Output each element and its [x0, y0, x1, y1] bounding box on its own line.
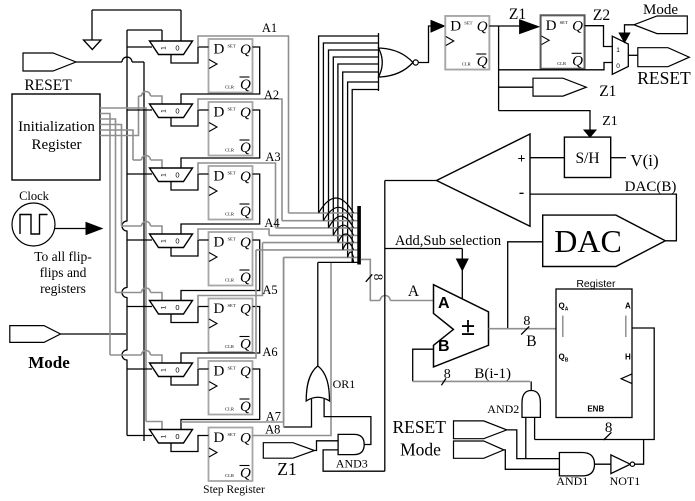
svg-text:A5: A5 — [262, 283, 277, 297]
svg-text:V(i): V(i) — [630, 151, 658, 170]
svg-text:Z1: Z1 — [602, 114, 618, 129]
svg-text:Q: Q — [559, 353, 565, 362]
svg-text:1: 1 — [616, 47, 620, 54]
svg-text:Add,Sub selection: Add,Sub selection — [395, 233, 502, 249]
svg-text:DAC: DAC — [554, 223, 622, 259]
svg-text:A: A — [438, 295, 450, 312]
svg-text:B: B — [526, 333, 536, 350]
svg-text:Z2: Z2 — [593, 7, 610, 24]
svg-text:flips and: flips and — [40, 265, 87, 280]
svg-text:RESET: RESET — [637, 68, 691, 88]
svg-text:NOT1: NOT1 — [610, 474, 641, 488]
svg-text:RESET: RESET — [24, 77, 72, 94]
svg-text:AND3: AND3 — [336, 457, 368, 471]
svg-text:RESET: RESET — [392, 417, 446, 437]
svg-text:Mode: Mode — [400, 440, 441, 460]
svg-text:registers: registers — [40, 281, 86, 296]
svg-text:-: - — [519, 184, 524, 201]
svg-text:Z1: Z1 — [599, 83, 616, 100]
svg-text:A: A — [565, 307, 569, 313]
svg-text:OR1: OR1 — [333, 377, 356, 391]
svg-text:Clock: Clock — [19, 189, 50, 203]
svg-text:Initialization: Initialization — [18, 119, 95, 135]
svg-text:Register: Register — [32, 137, 82, 153]
svg-text:B: B — [565, 358, 569, 364]
svg-text:8: 8 — [605, 420, 613, 436]
svg-text:Register: Register — [576, 278, 616, 290]
svg-text:A2: A2 — [264, 88, 279, 102]
svg-text:ENB: ENB — [587, 405, 604, 414]
svg-text:DAC(B): DAC(B) — [625, 179, 677, 195]
svg-text:Mode: Mode — [28, 353, 70, 372]
svg-text:A8: A8 — [265, 423, 280, 437]
svg-text:AND2: AND2 — [487, 402, 519, 416]
svg-text:H: H — [625, 353, 631, 362]
svg-text:S/H: S/H — [575, 150, 599, 167]
svg-text:A1: A1 — [262, 21, 277, 35]
svg-text:B(i-1): B(i-1) — [474, 366, 511, 382]
svg-text:+: + — [518, 152, 526, 167]
svg-text:Step Register: Step Register — [203, 484, 265, 496]
svg-text:AND1: AND1 — [556, 474, 588, 488]
svg-text:B: B — [438, 338, 450, 355]
svg-text:A: A — [408, 283, 420, 300]
svg-text:A: A — [625, 302, 631, 311]
svg-text:To all flip-: To all flip- — [34, 249, 92, 264]
svg-text:Z1: Z1 — [277, 459, 296, 479]
svg-text:±: ± — [461, 312, 475, 341]
svg-text:8: 8 — [444, 367, 451, 382]
svg-text:Q: Q — [559, 302, 565, 311]
svg-text:A6: A6 — [262, 345, 277, 359]
svg-text:0: 0 — [616, 63, 620, 70]
svg-text:A7: A7 — [266, 410, 281, 424]
svg-text:Z1: Z1 — [509, 6, 526, 23]
svg-text:A3: A3 — [265, 150, 280, 164]
svg-text:8: 8 — [371, 274, 386, 281]
